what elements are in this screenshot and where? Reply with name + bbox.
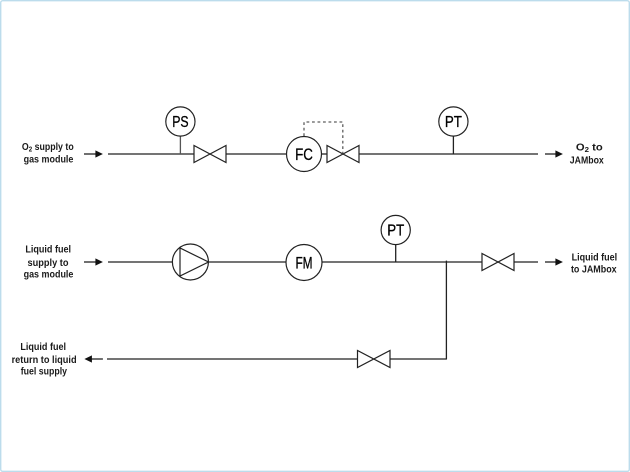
arrow out of O2 line bbox=[545, 150, 563, 157]
svg-text:supply to: supply to bbox=[28, 258, 69, 269]
svg-text:to JAMbox: to JAMbox bbox=[571, 264, 617, 275]
wire: liquid fuel line after valve V3 bbox=[514, 261, 538, 263]
instrument PT2 (pressure transmitter, fuel line) bbox=[381, 215, 410, 244]
instrument PT1 (pressure transmitter, O2 line) bbox=[439, 107, 468, 136]
svg-text:Liquid fuel: Liquid fuel bbox=[20, 342, 66, 353]
pump P1 bbox=[172, 244, 208, 280]
control line (dashed) FC to valve V2 bbox=[304, 122, 343, 153]
wire: vertical branch to return line bbox=[445, 261, 447, 359]
wire: return line right segment to branch bbox=[390, 358, 447, 360]
svg-text:O2 to: O2 to bbox=[576, 143, 603, 155]
valve V3 bbox=[482, 254, 514, 271]
svg-text:PT: PT bbox=[445, 114, 462, 131]
wire: O2 line between valve V2 and right end bbox=[359, 153, 538, 155]
controller FC (flow controller) bbox=[287, 137, 322, 172]
wire: stem of PT1 instrument bbox=[452, 136, 454, 154]
wire: stub between FC and valve V2 bbox=[321, 153, 328, 155]
wire: stem of PT2 instrument bbox=[395, 245, 397, 263]
instrument PS (pressure switch) bbox=[166, 107, 195, 136]
arrow out of liquid fuel line bbox=[545, 258, 563, 265]
svg-text:FC: FC bbox=[295, 145, 313, 164]
valve V4 bbox=[358, 351, 391, 368]
svg-text:Liquid fuel: Liquid fuel bbox=[25, 245, 71, 256]
svg-text:JAMbox: JAMbox bbox=[570, 156, 604, 167]
wire: O2 line between valve V1 and FC bbox=[226, 153, 287, 155]
svg-text:fuel supply: fuel supply bbox=[21, 366, 68, 377]
arrow into liquid fuel line bbox=[84, 258, 103, 265]
svg-text:PT: PT bbox=[387, 223, 404, 240]
flow meter FM bbox=[286, 245, 322, 281]
valve V1 bbox=[194, 146, 226, 163]
svg-text:return to liquid: return to liquid bbox=[12, 355, 77, 366]
wire: O2 main line left segment bbox=[108, 153, 194, 155]
wire: return line left segment bbox=[107, 358, 358, 360]
valve V2 (control valve) bbox=[327, 146, 359, 163]
svg-text:Liquid fuel: Liquid fuel bbox=[572, 253, 618, 264]
svg-text:PS: PS bbox=[172, 114, 188, 131]
arrow out of return line (pointing left) bbox=[84, 355, 103, 362]
wire: stem of PS instrument bbox=[179, 136, 181, 154]
arrow into O2 line bbox=[84, 150, 103, 157]
wire: liquid fuel main line bbox=[108, 261, 482, 263]
svg-text:gas module: gas module bbox=[24, 270, 74, 281]
svg-text:FM: FM bbox=[295, 255, 312, 273]
svg-text:gas module: gas module bbox=[24, 154, 74, 165]
